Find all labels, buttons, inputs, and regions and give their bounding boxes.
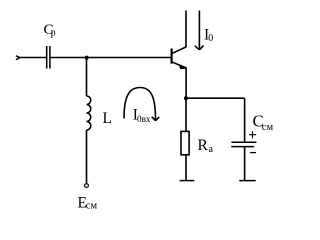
svg-text:p: p (51, 27, 56, 38)
svg-text:а: а (209, 144, 214, 155)
svg-text:0: 0 (208, 33, 213, 44)
svg-text:L: L (103, 110, 112, 127)
svg-text:R: R (198, 137, 209, 154)
svg-text:см: см (86, 200, 98, 211)
svg-text:см: см (262, 122, 274, 133)
svg-text:0вх: 0вх (137, 114, 151, 124)
